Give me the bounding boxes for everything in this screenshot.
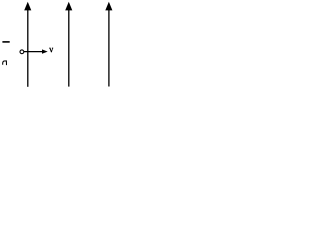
label v (velocity) <box>49 48 53 52</box>
label q (charge symbol) <box>3 61 7 65</box>
velocity arrow (horizontal, rightward) <box>24 49 48 53</box>
charge circle on left field line <box>20 50 24 54</box>
minus sign (charge polarity) <box>2 41 9 43</box>
field line arrow 3 (right, upward) <box>105 2 112 87</box>
field line arrow 1 (left, upward) <box>24 2 31 87</box>
field line arrow 2 (middle, upward) <box>65 2 72 87</box>
